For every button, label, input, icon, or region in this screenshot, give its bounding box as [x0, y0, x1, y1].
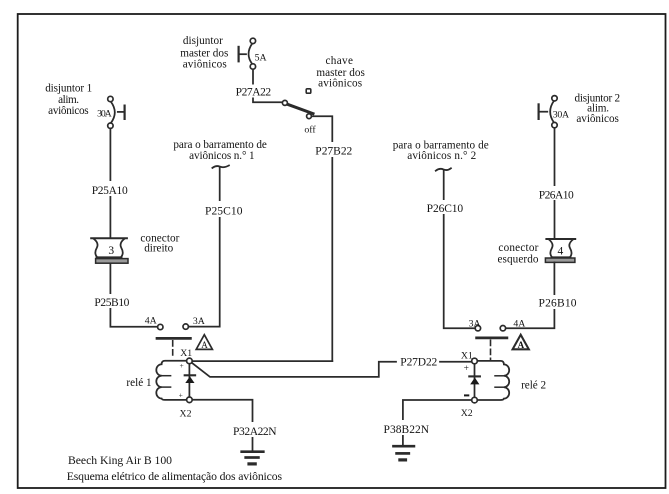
svg-text:esquerdo: esquerdo — [498, 254, 539, 266]
svg-text:Esquema elétrico de alimentaçã: Esquema elétrico de alimentação dos aviô… — [67, 470, 283, 483]
svg-text:P27D22: P27D22 — [400, 356, 437, 368]
svg-text:3A: 3A — [469, 319, 481, 330]
svg-text:conector: conector — [498, 242, 538, 254]
svg-text:off: off — [304, 124, 316, 135]
svg-text:5A: 5A — [255, 52, 267, 63]
svg-text:P25C10: P25C10 — [205, 206, 243, 218]
svg-text:P26C10: P26C10 — [427, 203, 464, 215]
svg-text:4: 4 — [558, 246, 564, 258]
svg-text:P26B10: P26B10 — [539, 298, 577, 310]
svg-text:A: A — [201, 340, 208, 350]
svg-text:A: A — [518, 340, 525, 350]
svg-text:X2: X2 — [461, 408, 473, 419]
svg-text:P38B22N: P38B22N — [384, 424, 430, 436]
svg-text:aviônicos n.° 1: aviônicos n.° 1 — [189, 150, 255, 162]
svg-text:30A: 30A — [97, 109, 112, 120]
svg-text:aviônicos: aviônicos — [318, 77, 362, 89]
svg-text:P27A22: P27A22 — [236, 86, 272, 98]
svg-text:4A: 4A — [145, 315, 157, 326]
svg-text:relé 1: relé 1 — [126, 377, 151, 389]
svg-text:+: + — [179, 361, 183, 370]
svg-text:disjuntor 1: disjuntor 1 — [45, 83, 92, 95]
svg-text:direito: direito — [144, 242, 173, 254]
svg-text:aviônicos n.° 2: aviônicos n.° 2 — [407, 150, 476, 162]
svg-text:3: 3 — [108, 245, 114, 257]
svg-text:P25A10: P25A10 — [92, 185, 128, 197]
svg-text:chave: chave — [325, 55, 353, 67]
svg-text:P25B10: P25B10 — [94, 297, 129, 309]
svg-text:aviônicos: aviônicos — [48, 105, 89, 117]
svg-text:X2: X2 — [180, 408, 192, 419]
svg-text:+: + — [179, 390, 183, 399]
svg-text:P26A10: P26A10 — [539, 190, 574, 202]
svg-text:aviônicos: aviônicos — [183, 59, 227, 71]
svg-text:4A: 4A — [513, 319, 525, 330]
svg-text:disjuntor: disjuntor — [183, 35, 223, 47]
svg-text:X1: X1 — [461, 350, 473, 361]
svg-text:30A: 30A — [553, 110, 569, 121]
svg-text:relé 2: relé 2 — [521, 379, 546, 391]
svg-text:aviônicos: aviônicos — [576, 113, 619, 125]
svg-text:+: + — [464, 364, 469, 374]
svg-text:Beech King Air B 100: Beech King Air B 100 — [68, 454, 172, 467]
svg-text:master dos: master dos — [180, 47, 228, 59]
svg-text:3A: 3A — [193, 316, 205, 327]
svg-text:P27B22: P27B22 — [315, 145, 352, 157]
svg-text:P32A22N: P32A22N — [233, 426, 277, 438]
svg-text:X1: X1 — [180, 348, 192, 359]
